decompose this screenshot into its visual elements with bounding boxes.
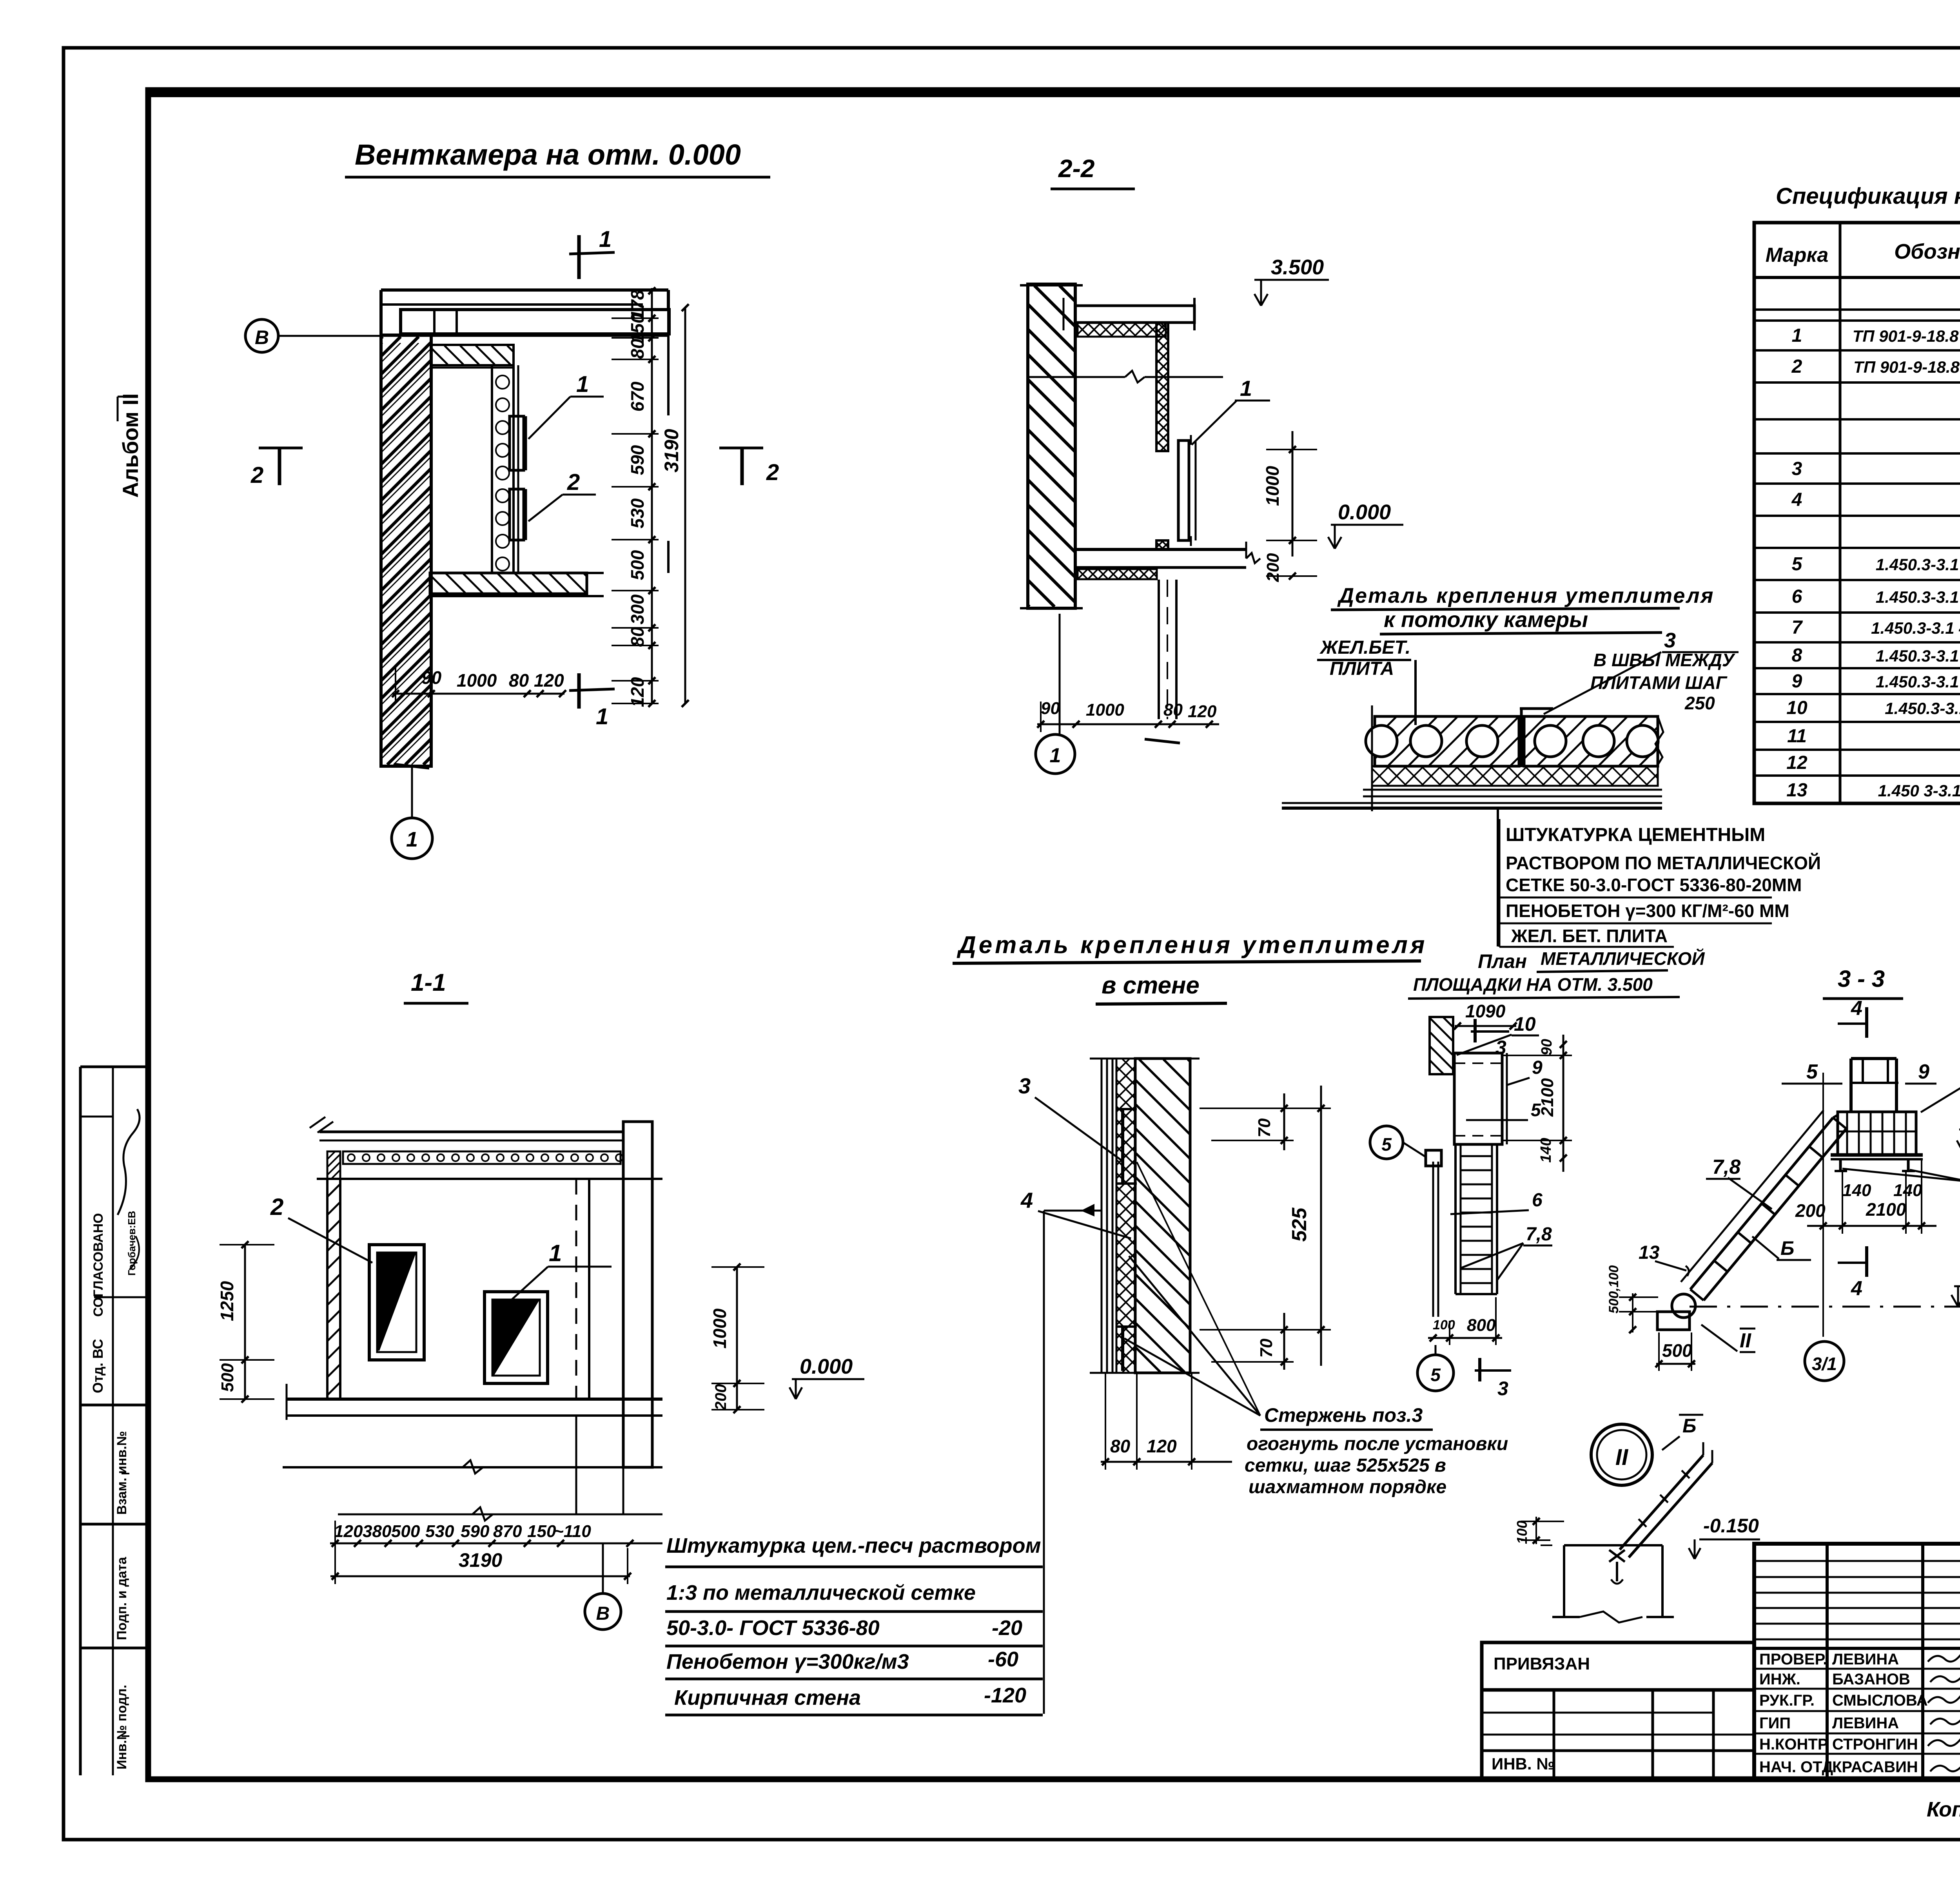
svg-text:380: 380 <box>363 1522 392 1541</box>
1-1: ceiling hollow slab strip <box>343 1151 621 1164</box>
1-1: ceiling bottom line <box>317 1178 662 1180</box>
svg-text:Штукатурка цем.-песч раствором: Штукатурка цем.-песч раствором <box>666 1534 1041 1557</box>
svg-text:120: 120 <box>1147 1436 1177 1456</box>
svg-text:ЛЕВИНА: ЛЕВИНА <box>1832 1651 1899 1668</box>
svg-text:9: 9 <box>1532 1057 1543 1078</box>
svg-text:120: 120 <box>534 670 564 691</box>
svg-text:70: 70 <box>1255 1118 1274 1137</box>
svg-text:Копировал:: Копировал: <box>1927 1798 1960 1821</box>
svg-text:РАСТВОРОМ ПО МЕТАЛЛИЧЕСКОЙ: РАСТВОРОМ ПО МЕТАЛЛИЧЕСКОЙ <box>1506 853 1821 873</box>
план: column double line <box>1432 1162 1434 1317</box>
svg-text:140: 140 <box>1893 1181 1922 1200</box>
svg-text:1.450.3-3.1 5.1.0 1.0-: 1.450.3-3.1 5.1.0 1.0- <box>1885 699 1960 718</box>
план: platform rectangle <box>1454 1053 1502 1144</box>
план: axis circle 5 bottom <box>1417 1355 1454 1391</box>
svg-text:500: 500 <box>391 1522 420 1541</box>
svg-text:530: 530 <box>627 498 648 528</box>
svg-text:1: 1 <box>599 227 612 252</box>
svg-text:590: 590 <box>627 445 648 475</box>
plan: door frame item 1 <box>510 416 524 470</box>
3-3: axis circle 3/1 <box>1805 1341 1844 1381</box>
svg-text:80: 80 <box>1163 700 1183 720</box>
svg-text:10: 10 <box>1514 1013 1536 1035</box>
svg-text:1000: 1000 <box>457 670 497 691</box>
svg-text:500: 500 <box>218 1363 237 1392</box>
plaster lines under insulation <box>1363 789 1662 791</box>
plan: bottom slab strip (hatched) <box>430 573 587 594</box>
stamp left: Привязан box <box>1482 1642 1754 1690</box>
spec table grid <box>1754 223 1960 803</box>
svg-text:Обозначение: Обозначение <box>1894 240 1960 263</box>
svg-text:3: 3 <box>1792 459 1802 479</box>
svg-text:200: 200 <box>712 1384 730 1411</box>
svg-text:8: 8 <box>1792 645 1802 666</box>
wall detail: plaster layers <box>1101 1059 1103 1373</box>
svg-text:ГИП: ГИП <box>1759 1715 1791 1732</box>
plan: axis circle 1 bottom <box>392 818 432 859</box>
svg-text:1: 1 <box>406 828 418 851</box>
2-2: mid floor line with break <box>1028 376 1125 378</box>
svg-text:НАЧ. ОТД: НАЧ. ОТД <box>1759 1758 1833 1776</box>
svg-text:Венткамера на отм. 0.000: Венткамера на отм. 0.000 <box>355 138 741 171</box>
svg-text:590: 590 <box>461 1522 490 1541</box>
svg-text:7,8: 7,8 <box>1526 1224 1552 1245</box>
svg-text:-120: -120 <box>984 1684 1026 1707</box>
svg-text:530: 530 <box>425 1522 454 1541</box>
svg-text:В ШВЫ МЕЖДУ: В ШВЫ МЕЖДУ <box>1593 650 1736 670</box>
2-2: frame member item 1 <box>1178 441 1189 540</box>
1-1: window item 2 (with dark corner) <box>369 1245 424 1360</box>
svg-text:0.000: 0.000 <box>1338 500 1391 524</box>
svg-text:200: 200 <box>1263 553 1283 582</box>
svg-text:250: 250 <box>1684 693 1715 713</box>
plan: section mark 2 right <box>719 447 763 450</box>
план: column square <box>1426 1150 1441 1166</box>
2-2: floor slab <box>1075 548 1246 551</box>
svg-text:4: 4 <box>1851 1277 1862 1300</box>
2-2: wall (hatched) <box>1028 284 1075 608</box>
svg-text:ТП 901-9-18.87-КЖИ 16.0.0.0: ТП 901-9-18.87-КЖИ 16.0.0.0 <box>1853 327 1960 345</box>
plan: section mark 1 top <box>577 235 581 279</box>
left margin stamp table <box>80 1066 148 1068</box>
svg-text:5: 5 <box>1792 554 1803 575</box>
svg-text:300: 300 <box>627 594 648 624</box>
план: wall block hatched <box>1430 1017 1453 1074</box>
plan: top frame РМ1 band <box>401 310 669 334</box>
svg-text:ПЛОЩАДКИ НА ОТМ. 3.500: ПЛОЩАДКИ НА ОТМ. 3.500 <box>1413 974 1653 995</box>
wall detail: brick wall hatched <box>1135 1059 1190 1373</box>
wall detail: dims 70/525/70 <box>1320 1086 1322 1366</box>
detail II plan square <box>1564 1544 1662 1546</box>
svg-text:2: 2 <box>270 1194 283 1220</box>
svg-text:670: 670 <box>627 381 648 412</box>
detail II ladder stub <box>1620 1455 1703 1550</box>
svg-text:1.450 3-3.1 7.1.0.03-01: 1.450 3-3.1 7.1.0.03-01 <box>1878 781 1960 800</box>
svg-text:II: II <box>1615 1445 1629 1470</box>
svg-text:ИНЖ.: ИНЖ. <box>1759 1671 1800 1688</box>
svg-text:1.450.3-3.1 5 1.0 1.0-05: 1.450.3-3.1 5 1.0 1.0-05 <box>1876 673 1960 691</box>
svg-text:10: 10 <box>1786 698 1808 718</box>
leader line to plaster table <box>1044 1210 1101 1212</box>
1-1: left dims 1250/500 <box>244 1245 246 1399</box>
stamp left: lower grid <box>1482 1690 1754 1779</box>
svg-text:-20: -20 <box>992 1616 1022 1640</box>
svg-text:Альбом II: Альбом II <box>118 393 143 498</box>
leader to text block <box>1497 808 1499 946</box>
план: ladder vertical <box>1454 1144 1457 1294</box>
svg-text:200: 200 <box>1795 1200 1826 1221</box>
svg-text:сетки, шаг 525х525 в: сетки, шаг 525х525 в <box>1245 1455 1446 1476</box>
svg-text:1: 1 <box>596 704 608 729</box>
svg-text:ЖЕЛ. БЕТ. ПЛИТА: ЖЕЛ. БЕТ. ПЛИТА <box>1511 926 1668 946</box>
2-2: top insulation strip <box>1078 323 1166 337</box>
svg-text:В: В <box>596 1603 610 1624</box>
svg-text:В: В <box>255 326 269 348</box>
svg-text:ШТУКАТУРКА ЦЕМЕНТНЫМ: ШТУКАТУРКА ЦЕМЕНТНЫМ <box>1506 825 1765 845</box>
plan: insulation strip with voids <box>492 365 514 573</box>
план: section mark 3 lower <box>1478 1358 1481 1381</box>
svg-text:1:3 по металлической сетке: 1:3 по металлической сетке <box>666 1581 976 1604</box>
svg-text:Марка: Марка <box>1766 244 1829 266</box>
stamp signatures squiggles <box>1928 1650 1960 1662</box>
3-3: platform railing <box>1849 1059 1853 1112</box>
план: dim 2100 vertical <box>1563 1035 1564 1172</box>
3-3: stair stringer ladder <box>1690 1118 1833 1289</box>
svg-text:4: 4 <box>1020 1188 1033 1213</box>
svg-text:150: 150 <box>527 1522 556 1541</box>
svg-text:90: 90 <box>421 667 442 688</box>
wall detail: mesh rod verticals <box>1121 1109 1124 1184</box>
stamp signature rows <box>1754 1668 1960 1670</box>
svg-text:СТРОНГИН: СТРОНГИН <box>1832 1736 1918 1753</box>
svg-text:2: 2 <box>766 460 779 485</box>
svg-text:ЛЕВИНА: ЛЕВИНА <box>1832 1715 1899 1732</box>
slab right (hollow core) <box>1524 716 1658 766</box>
svg-text:II: II <box>1740 1329 1751 1352</box>
leader fork to wall layers <box>1129 1256 1260 1416</box>
svg-text:1.450.3-3.1 4.1.1.1 0 - 10: 1.450.3-3.1 4.1.1.1 0 - 10 <box>1871 619 1960 637</box>
svg-text:2: 2 <box>250 462 263 488</box>
svg-text:5: 5 <box>1430 1365 1441 1385</box>
svg-text:120: 120 <box>334 1522 363 1541</box>
wall detail: insulation strip <box>1116 1059 1135 1373</box>
svg-text:870: 870 <box>493 1522 522 1541</box>
svg-text:Отд. ВС: Отд. ВС <box>90 1339 106 1393</box>
svg-text:3/1: 3/1 <box>1812 1354 1837 1374</box>
2-2: floor insulation strip <box>1078 569 1157 579</box>
text block Штукатурка цементным раствором <box>1499 819 1501 947</box>
plan: axis circle В <box>245 319 278 352</box>
svg-text:13: 13 <box>1639 1242 1660 1263</box>
svg-text:Б: Б <box>1682 1415 1696 1437</box>
svg-text:~110: ~110 <box>554 1522 591 1541</box>
leader from ЖЕЛ.БЕТ. to slab <box>1414 660 1417 725</box>
план: section mark 3 upper <box>1474 1019 1477 1042</box>
svg-text:к потолку камеры: к потолку камеры <box>1384 607 1588 632</box>
2-2: wall top/bottom ticks <box>1020 284 1083 286</box>
svg-text:2: 2 <box>1791 356 1802 377</box>
svg-text:7,8: 7,8 <box>1712 1156 1740 1178</box>
svg-text:Кирпичная стена: Кирпичная стена <box>674 1686 861 1709</box>
svg-text:СЕТКЕ 50-3.0-ГОСТ 5336-80-20ММ: СЕТКЕ 50-3.0-ГОСТ 5336-80-20ММ <box>1506 875 1802 895</box>
svg-text:12: 12 <box>1786 752 1808 773</box>
svg-text:80: 80 <box>1110 1436 1131 1456</box>
plan: section mark 1 bottom <box>577 673 581 709</box>
svg-text:-0.150: -0.150 <box>1703 1515 1759 1537</box>
svg-text:120: 120 <box>627 677 648 707</box>
svg-text:500: 500 <box>1662 1340 1692 1361</box>
svg-text:СМЫСЛОВА: СМЫСЛОВА <box>1832 1692 1928 1709</box>
svg-text:КРАСАВИН: КРАСАВИН <box>1832 1758 1918 1776</box>
svg-text:1090: 1090 <box>1465 1001 1506 1021</box>
1-1: foundation lines <box>283 1466 662 1468</box>
svg-text:-60: -60 <box>988 1648 1018 1671</box>
svg-text:ИНВ. №: ИНВ. № <box>1492 1755 1555 1773</box>
svg-text:ПРОВЕР.: ПРОВЕР. <box>1759 1651 1827 1668</box>
stamp left columns verticals <box>1826 1544 1829 1779</box>
svg-text:3 - 3: 3 - 3 <box>1838 966 1885 992</box>
svg-text:1: 1 <box>1050 744 1061 767</box>
svg-text:2: 2 <box>567 470 580 495</box>
1-1: floor lines <box>287 1398 662 1401</box>
svg-text:1: 1 <box>1240 376 1252 401</box>
3-3: deck corner clips item 11 <box>1839 1158 1842 1172</box>
fastener in joint <box>1520 709 1523 766</box>
svg-text:140: 140 <box>1842 1181 1871 1200</box>
svg-text:4: 4 <box>1791 489 1802 510</box>
svg-text:2-2: 2-2 <box>1058 154 1095 183</box>
3-3: platform deck with grating <box>1838 1112 1916 1155</box>
svg-text:Б: Б <box>1780 1237 1794 1259</box>
svg-text:500,100: 500,100 <box>1606 1265 1621 1313</box>
svg-text:3: 3 <box>1664 629 1676 652</box>
detail II anchor symbol <box>1609 1550 1625 1562</box>
svg-text:Инв.№ подл.: Инв.№ подл. <box>114 1685 129 1769</box>
svg-text:5: 5 <box>1381 1134 1392 1155</box>
svg-text:3.500: 3.500 <box>1271 256 1324 279</box>
3-3: foot base square <box>1657 1312 1690 1330</box>
svg-text:ПЕНОБЕТОН γ=300 КГ/М²-60 ММ: ПЕНОБЕТОН γ=300 КГ/М²-60 ММ <box>1506 901 1789 921</box>
svg-text:СОГЛАСОВАНО: СОГЛАСОВАНО <box>91 1213 106 1317</box>
svg-text:9: 9 <box>1792 671 1802 692</box>
svg-text:80: 80 <box>509 670 529 691</box>
2-2: axis circle 1 <box>1059 614 1061 734</box>
svg-text:6: 6 <box>1792 586 1802 607</box>
insulation strip under slabs <box>1372 766 1658 786</box>
plan: outer brick wall (hatched) <box>381 335 431 766</box>
svg-text:70: 70 <box>1257 1338 1276 1358</box>
svg-text:ПЛИТАМИ ШАГ: ПЛИТАМИ ШАГ <box>1590 673 1728 693</box>
svg-text:3: 3 <box>1497 1378 1508 1399</box>
svg-text:БАЗАНОВ: БАЗАНОВ <box>1832 1671 1910 1688</box>
svg-text:120: 120 <box>1188 702 1217 721</box>
wall detail: end ticks <box>1090 1058 1200 1060</box>
plan: door frame item 2 <box>510 489 524 540</box>
plan: chamber right edge <box>667 310 670 415</box>
svg-text:3190: 3190 <box>661 429 682 472</box>
svg-text:50-3.0- ГОСТ 5336-80: 50-3.0- ГОСТ 5336-80 <box>666 1616 880 1640</box>
svg-text:Подп. и дата: Подп. и дата <box>114 1557 129 1640</box>
svg-text:1: 1 <box>1792 325 1802 346</box>
svg-text:525: 525 <box>1288 1207 1311 1242</box>
svg-text:1: 1 <box>549 1240 562 1266</box>
1-1: right dims 1000/200 <box>736 1267 738 1410</box>
svg-text:3190: 3190 <box>459 1549 502 1571</box>
svg-text:90: 90 <box>1539 1039 1555 1055</box>
svg-text:огогнуть после установки: огогнуть после установки <box>1247 1434 1508 1454</box>
svg-text:ЖЕЛ.БЕТ.: ЖЕЛ.БЕТ. <box>1319 637 1410 658</box>
1-1: top-left corner hatch <box>327 1151 340 1179</box>
svg-text:9: 9 <box>1918 1060 1929 1083</box>
plan: top wall band <box>381 288 668 292</box>
svg-text:МЕТАЛЛИЧЕСКОЙ: МЕТАЛЛИЧЕСКОЙ <box>1541 948 1705 969</box>
2-2: dim 1000 vertical <box>1292 431 1294 557</box>
svg-text:1-1: 1-1 <box>411 969 446 996</box>
plan: inner lining line <box>517 365 519 573</box>
svg-text:800: 800 <box>1467 1316 1496 1335</box>
svg-text:13: 13 <box>1786 780 1808 801</box>
3-3: ladder foot pipe circle <box>1672 1294 1695 1318</box>
1-1: axis circle В bottom <box>585 1593 621 1630</box>
slab left (hollow core) <box>1375 716 1519 766</box>
svg-text:1.450.3-3.1 2.1.1.0.0-14: 1.450.3-3.1 2.1.1.0.0-14 <box>1876 555 1960 574</box>
2-2: column below <box>1158 580 1160 719</box>
svg-text:0.000: 0.000 <box>800 1355 853 1378</box>
1-1: ceiling slab band <box>319 1131 623 1133</box>
svg-text:в стене: в стене <box>1102 972 1200 999</box>
svg-text:1000: 1000 <box>710 1308 730 1349</box>
svg-text:Стержень поз.3: Стержень поз.3 <box>1264 1404 1423 1426</box>
detail II circle <box>1591 1424 1652 1485</box>
svg-text:5: 5 <box>1806 1060 1818 1083</box>
plan: section mark 2 left <box>259 447 303 450</box>
svg-text:ТП 901-9-18.87-КЖИ. П.0.0.0: ТП 901-9-18.87-КЖИ. П.0.0.0 <box>1853 358 1960 376</box>
svg-text:1000: 1000 <box>1086 700 1124 720</box>
right break line <box>1655 716 1663 766</box>
svg-text:4: 4 <box>1851 997 1862 1020</box>
1-1: right wall column <box>623 1122 652 1467</box>
2-2: top slab <box>1075 306 1194 323</box>
svg-text:Н.КОНТР: Н.КОНТР <box>1759 1736 1828 1753</box>
1-1: foundation column lines <box>575 1416 577 1514</box>
1-1: inner right wall dashed <box>575 1179 577 1399</box>
план: axis circle 5 left <box>1370 1126 1403 1159</box>
svg-text:1.450.3-3.1 4.1 1.1 0-04: 1.450.3-3.1 4.1 1.1 0-04 <box>1876 647 1960 665</box>
svg-text:90: 90 <box>1041 699 1060 718</box>
stamp outer box <box>1754 1544 1960 1779</box>
plan: overall dimension 3190 <box>684 308 686 703</box>
svg-text:1: 1 <box>576 372 589 397</box>
2-2: wall/frame vertical strip <box>1156 323 1168 451</box>
left end tick <box>1371 705 1373 811</box>
svg-text:Спецификация к схеме расположе: Спецификация к схеме расположения Вентка… <box>1776 183 1960 209</box>
svg-text:Деталь крепления утеплителя: Деталь крепления утеплителя <box>956 932 1427 959</box>
svg-text:1250: 1250 <box>217 1281 237 1321</box>
svg-text:140: 140 <box>1538 1138 1554 1162</box>
svg-text:100: 100 <box>1433 1318 1455 1332</box>
svg-text:1.450.3-3.1 1.1.1.0.0-16: 1.450.3-3.1 1.1.1.0.0-16 <box>1876 588 1960 606</box>
svg-text:1000: 1000 <box>1262 466 1283 506</box>
svg-text:80: 80 <box>627 339 648 359</box>
svg-text:РУК.ГР.: РУК.ГР. <box>1759 1692 1815 1709</box>
svg-text:3: 3 <box>1018 1073 1031 1098</box>
svg-text:2100: 2100 <box>1866 1199 1906 1220</box>
svg-text:План: План <box>1478 950 1527 972</box>
svg-text:Горбачев:ЕВ: Горбачев:ЕВ <box>126 1211 138 1276</box>
stamp thin rows upper left <box>1754 1560 1960 1562</box>
3-3: ground dash line -0.150 <box>1690 1306 1960 1308</box>
signature squiggle left margin <box>118 1109 140 1215</box>
svg-text:11: 11 <box>1787 726 1807 747</box>
svg-text:ПЛИТА: ПЛИТА <box>1330 658 1394 679</box>
svg-text:6: 6 <box>1532 1190 1543 1211</box>
plan: inner wall top strip (hatched) <box>431 345 514 365</box>
1-1: window item 1 (with dark corner) <box>485 1292 548 1383</box>
svg-text:5: 5 <box>1531 1100 1541 1120</box>
svg-text:Деталь крепления утеплителя: Деталь крепления утеплителя <box>1337 584 1714 607</box>
3-3: section mark 4 bottom <box>1838 1262 1867 1264</box>
svg-text:500: 500 <box>627 550 648 580</box>
svg-text:шахматном порядке: шахматном порядке <box>1249 1477 1446 1497</box>
svg-text:7: 7 <box>1792 617 1803 638</box>
svg-text:Пенобетон γ=300кг/м3: Пенобетон γ=300кг/м3 <box>666 1650 909 1673</box>
svg-text:ПРИВЯЗАН: ПРИВЯЗАН <box>1494 1654 1590 1673</box>
svg-text:80: 80 <box>627 627 648 647</box>
1-1: left wall (thin, hatched) <box>327 1179 340 1399</box>
plan: right dimension string <box>651 288 653 703</box>
